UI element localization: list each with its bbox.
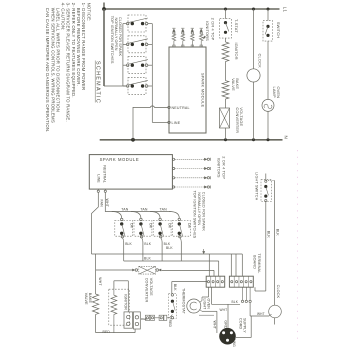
- wire neutral: [133, 106, 168, 140]
- oven ignitor (wiring): [111, 295, 117, 314]
- wire block1-ovenlight: [208, 287, 210, 297]
- svg-text:IGNITOR: IGNITOR: [123, 294, 127, 310]
- wire tstat-ignitor: [225, 38, 227, 42]
- ignition switch S1: [128, 15, 146, 32]
- oven t-stat: [220, 19, 232, 38]
- wire ignitor-bakevalve: [225, 62, 227, 81]
- wire light switch blk1: [265, 202, 267, 292]
- svg-text:CLOSED FOR SPARK: CLOSED FOR SPARK: [202, 192, 206, 232]
- wire line: [152, 121, 168, 123]
- terminal board block1 terminals: [210, 276, 212, 287]
- bus A (module BLK): [92, 253, 243, 255]
- svg-text:OR: OR: [149, 223, 153, 229]
- junction L1-clock: [252, 8, 255, 11]
- wire converter-bakevalve: [95, 270, 97, 294]
- svg-text:TAN: TAN: [121, 207, 129, 211]
- wire plug right: [250, 316, 252, 338]
- svg-text:TOP IGNITION SWITCHES: TOP IGNITION SWITCHES: [110, 16, 114, 64]
- L1 rail: [104, 8, 280, 10]
- terminal board block2: [229, 276, 253, 287]
- busC drop to block1: [213, 270, 215, 276]
- svg-text:2 OR 4 TOP: 2 OR 4 TOP: [210, 18, 215, 41]
- voltage converter (schematic): [220, 108, 230, 128]
- thermostat (wiring): [169, 293, 177, 318]
- wire clock bottom: [274, 318, 276, 325]
- svg-text:T-STAT: T-STAT: [234, 19, 239, 33]
- ignition switch S3: [128, 57, 146, 74]
- svg-text:IGNITOR: IGNITOR: [234, 43, 239, 60]
- svg-text:BLK: BLK: [267, 231, 271, 239]
- svg-text:BLK: BLK: [275, 229, 279, 237]
- svg-text:IGNITORS: IGNITORS: [216, 158, 221, 178]
- wire bakevalve-converter: [225, 99, 227, 108]
- svg-text:OR: OR: [187, 223, 191, 229]
- svg-text:NORMALLY OPEN: NORMALLY OPEN: [114, 18, 118, 51]
- wire module left down: [92, 192, 99, 254]
- svg-text:NORMALLY OPEN: NORMALLY OPEN: [197, 192, 201, 225]
- module ignitor outputs (4): [173, 158, 175, 160]
- wire connectors-thermostat: [155, 317, 160, 319]
- wire bakevalve-bottom: [95, 314, 97, 332]
- svg-text:SPARK MODULE: SPARK MODULE: [100, 157, 140, 162]
- svg-text:BLK: BLK: [232, 300, 239, 304]
- svg-text:TAN: TAN: [140, 207, 148, 211]
- svg-text:SWITCH: SWITCH: [276, 22, 281, 38]
- junction N-clock: [252, 138, 255, 141]
- junction N-neutral: [131, 138, 135, 142]
- svg-text:BLK: BLK: [144, 242, 151, 246]
- surface ignitors (4): [172, 27, 175, 29]
- svg-text:CONVERTER: CONVERTER: [144, 278, 148, 303]
- neutral terminal: [168, 106, 170, 108]
- busA drop to block1: [208, 254, 210, 276]
- svg-text:OR: OR: [168, 223, 172, 229]
- svg-text:L1: L1: [282, 7, 287, 13]
- svg-text:TERMINAL: TERMINAL: [257, 253, 261, 273]
- svg-text:BLK: BLK: [173, 284, 177, 291]
- inline connectors: [145, 315, 149, 320]
- ignition switch S2: [128, 36, 146, 53]
- terminal board block2 terminals: [233, 276, 235, 287]
- svg-text:VALVE: VALVE: [84, 293, 88, 305]
- svg-text:CONVERTER: CONVERTER: [235, 107, 240, 133]
- wire L1-tstat: [225, 9, 227, 19]
- svg-text:BLK: BLK: [144, 256, 152, 260]
- svg-text:LINE: LINE: [96, 174, 100, 183]
- svg-text:VOLTAGE: VOLTAGE: [149, 278, 153, 296]
- svg-text:N: N: [283, 136, 288, 139]
- light switch feed: [265, 174, 267, 180]
- wire clock-N: [253, 82, 255, 140]
- svg-text:THERMOSTAT: THERMOSTAT: [182, 288, 186, 315]
- bake valve (wiring): [92, 294, 98, 314]
- oven lamp: [262, 99, 274, 111]
- svg-text:RED: RED: [103, 330, 111, 334]
- converter connector right: [156, 269, 159, 272]
- svg-text:WHT: WHT: [98, 277, 102, 286]
- wire switch-lamp: [267, 41, 269, 99]
- wire block1-thermostat: [172, 281, 208, 283]
- junction L1-tstat: [224, 8, 227, 11]
- light switch: [261, 180, 271, 202]
- bus C (converter): [162, 269, 214, 271]
- spark module box (schematic): [169, 47, 206, 133]
- wire L1-switch: [267, 9, 269, 21]
- spark module box (wiring): [89, 155, 172, 190]
- clock (wiring): [269, 305, 282, 318]
- wire grd: [227, 304, 229, 328]
- junction N-converter: [224, 138, 227, 141]
- ignition switch SW4 (wiring): [169, 212, 179, 219]
- clock motor: [247, 69, 260, 82]
- wire lamp-N: [267, 111, 269, 139]
- svg-text:CLOCK: CLOCK: [276, 285, 280, 299]
- svg-text:RED: RED: [168, 320, 172, 328]
- svg-text:BOARD: BOARD: [253, 255, 257, 269]
- receptacle block B: [133, 312, 140, 329]
- svg-text:NEUTRAL: NEUTRAL: [172, 106, 190, 110]
- svg-text:TAN: TAN: [160, 207, 168, 211]
- svg-text:LIGHT SWITCH: LIGHT SWITCH: [254, 172, 258, 200]
- busB drop to block1: [218, 261, 220, 276]
- svg-text:VALVE: VALVE: [231, 78, 236, 91]
- wire L1-clock: [253, 9, 255, 69]
- wire blk lower: [211, 287, 213, 304]
- module bottom terminals: [97, 188, 99, 191]
- wire tan feed: [105, 192, 170, 211]
- svg-text:WHT: WHT: [212, 321, 216, 330]
- svg-text:WHT: WHT: [257, 312, 265, 316]
- svg-text:LIGHT: LIGHT: [202, 299, 206, 311]
- svg-text:SPARK MODULE: SPARK MODULE: [201, 73, 206, 108]
- bus B (switch BLK): [124, 260, 219, 262]
- switch right bus: [151, 24, 153, 123]
- line terminal: [168, 121, 170, 123]
- svg-text:OR: OR: [129, 223, 133, 229]
- wire converter-N: [225, 128, 227, 140]
- svg-text:CORD: CORD: [238, 318, 242, 329]
- connector circles row: [241, 300, 243, 302]
- light switch top jog: [266, 179, 275, 181]
- svg-text:WHT: WHT: [220, 308, 228, 312]
- busA drop to block2: [241, 254, 243, 276]
- wire ovenlight-wht: [202, 310, 217, 312]
- oven ignitor box (wiring): [109, 289, 130, 325]
- junction L1-switchbus: [102, 7, 106, 11]
- svg-text:FAN: FAN: [99, 200, 103, 208]
- junction L1-lamp: [267, 8, 270, 11]
- wire ignitor top: [113, 281, 115, 289]
- svg-text:LAMP: LAMP: [272, 87, 277, 98]
- ignition switch S4: [128, 77, 146, 94]
- terminal board block1: [206, 276, 225, 287]
- junction N-lamp: [267, 138, 270, 141]
- svg-text:CLOSED FOR SPARK: CLOSED FOR SPARK: [118, 17, 122, 57]
- svg-text:NEUTRAL: NEUTRAL: [103, 165, 107, 182]
- wire light switch blk2: [274, 180, 276, 305]
- svg-text:TOP IGNITION SWITCHES: TOP IGNITION SWITCHES: [193, 191, 197, 239]
- svg-text:LINE: LINE: [172, 121, 181, 125]
- oven ignitor (schematic): [222, 42, 229, 62]
- wire wht clock: [249, 303, 251, 316]
- N rail: [100, 139, 283, 141]
- fold line artifact: [297, 150, 299, 344]
- oven light switch (schematic): [263, 21, 272, 41]
- converter connector left: [132, 269, 135, 271]
- wire L1 down to switches: [103, 9, 105, 86]
- svg-text:CLOCK: CLOCK: [258, 54, 263, 69]
- svg-text:GRD: GRD: [224, 320, 228, 329]
- switch left bus: [122, 24, 124, 86]
- svg-text:IGNITORS: IGNITORS: [205, 21, 210, 41]
- bus junction arrow: [203, 249, 205, 253]
- svg-text:CAN CAUSE IMPROPER AND DANGERO: CAN CAUSE IMPROPER AND DANGEROUS OPERATI…: [45, 8, 50, 133]
- wire busA-converter: [95, 254, 97, 270]
- oven light: [187, 299, 201, 313]
- receptacle block A: [124, 312, 133, 328]
- bake valve (schematic): [222, 81, 229, 99]
- supply cord plug: [219, 328, 236, 345]
- block2 stub wires: [230, 254, 232, 276]
- voltage converter (wiring): [139, 266, 156, 274]
- svg-text:BLK: BLK: [166, 246, 173, 250]
- svg-text:BLK: BLK: [125, 242, 132, 246]
